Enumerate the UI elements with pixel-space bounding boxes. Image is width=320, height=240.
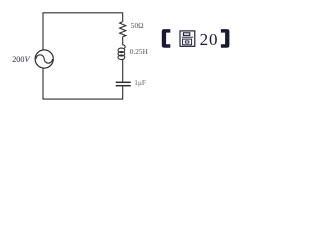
figure label CJK glyph tu (picture) xyxy=(180,31,195,46)
wire: right vertical from top rail to resistor xyxy=(122,13,124,22)
svg-text:200V: 200V xyxy=(12,55,30,64)
AC source V1 circle xyxy=(35,50,53,68)
svg-text:1μF: 1μF xyxy=(134,78,146,87)
capacitor C 1uF top plate xyxy=(116,81,131,83)
figure label left bracket xyxy=(162,29,171,48)
wire: top horizontal rail xyxy=(42,12,123,14)
capacitor C 1uF bottom plate xyxy=(116,85,131,87)
wire: top-left vertical from source to top rail xyxy=(42,13,44,50)
resistor R 50ohm zigzag xyxy=(120,22,126,37)
wire: between inductor and capacitor xyxy=(122,59,124,81)
svg-text:50Ω: 50Ω xyxy=(131,21,144,30)
wire: bottom horizontal rail xyxy=(42,98,123,100)
inductor L 0.25H coil xyxy=(118,45,125,60)
svg-text:20: 20 xyxy=(200,30,219,49)
AC source sine wave xyxy=(36,55,53,63)
svg-text:0.25H: 0.25H xyxy=(130,47,149,56)
figure label right bracket xyxy=(221,29,230,48)
wire: capacitor to bottom rail xyxy=(122,86,124,99)
wire: between resistor and inductor xyxy=(122,37,124,46)
wire: bottom-left vertical from bottom rail to source xyxy=(42,68,44,99)
